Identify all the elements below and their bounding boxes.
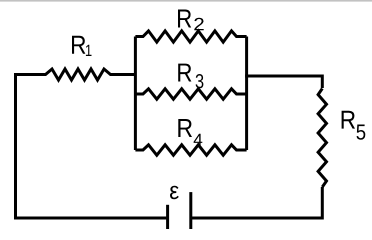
battery plate left (emf source) bbox=[166, 205, 169, 230]
label emf source bbox=[170, 186, 179, 200]
resistor R4 bbox=[135, 145, 246, 155]
resistor R2 bbox=[135, 31, 246, 42]
wire: left vertical + bottom-left horizontal bbox=[16, 75, 167, 219]
wire: right bus to R5 top bbox=[245, 76, 322, 88]
label R4 bbox=[178, 119, 202, 146]
battery plate right (emf source) bbox=[189, 192, 192, 229]
label R1 bbox=[72, 36, 92, 56]
label R5 bbox=[342, 111, 366, 140]
resistor R5 bbox=[318, 89, 326, 188]
node: right bus of parallel block bbox=[245, 37, 248, 151]
label R3 bbox=[178, 64, 203, 89]
label R2 bbox=[178, 10, 204, 31]
wire: R5 bottom to battery right plate bbox=[192, 187, 322, 218]
resistor R3 bbox=[135, 89, 246, 99]
node: left bus of parallel block bbox=[134, 37, 137, 151]
resistor R1 bbox=[14, 69, 135, 80]
